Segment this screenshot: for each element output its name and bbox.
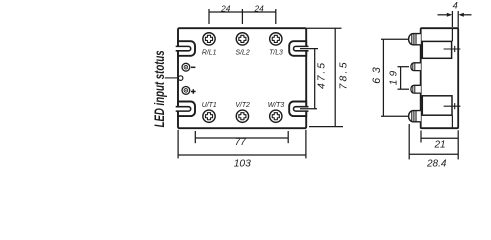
minus sign <box>191 66 195 68</box>
mounting tab bottom-left <box>176 102 195 117</box>
terminal screw V/T2 <box>236 110 248 122</box>
dimension 103 <box>178 130 306 159</box>
svg-text:78.5: 78.5 <box>338 62 349 89</box>
svg-text:U/T1: U/T1 <box>202 102 217 109</box>
dimension 63 <box>381 39 408 116</box>
input terminal minus screw <box>182 63 190 71</box>
svg-text:LED input stotus: LED input stotus <box>153 50 168 127</box>
svg-text:63: 63 <box>371 67 383 84</box>
side view mounting flange line (top segment) <box>451 28 453 41</box>
terminal screw S/L2 <box>236 33 248 45</box>
svg-text:4: 4 <box>453 0 458 10</box>
dimension 4 (flange thickness) <box>438 11 472 28</box>
side view input terminal lower <box>411 85 421 93</box>
dimension 77 <box>195 131 288 143</box>
svg-text:28.4: 28.4 <box>426 158 447 169</box>
side view mounting flange line (bottom segment) <box>451 115 453 128</box>
mounting tab top-right <box>289 41 308 56</box>
dimension 19 <box>398 67 410 90</box>
front view body outline <box>178 28 306 128</box>
svg-text:V/T2: V/T2 <box>235 102 250 109</box>
mounting tab top-left <box>176 41 195 56</box>
side view bottom mounting boss box <box>422 96 452 115</box>
dimension 78.5 <box>306 28 343 126</box>
svg-text:T/L3: T/L3 <box>269 50 283 57</box>
svg-text:R/L1: R/L1 <box>202 50 217 57</box>
svg-text:21: 21 <box>433 140 445 151</box>
dimension 24 lines and ticks <box>209 9 276 24</box>
side view top power terminal <box>409 34 421 45</box>
svg-text:77: 77 <box>235 137 247 148</box>
side view top slot line <box>444 46 461 52</box>
terminal screw W/T3 <box>270 110 282 122</box>
mounting tab bottom-right <box>289 102 308 117</box>
side view bottom power terminal <box>409 111 421 122</box>
svg-text:W/T3: W/T3 <box>268 102 285 109</box>
svg-text:103: 103 <box>234 159 251 170</box>
svg-text:47.5: 47.5 <box>317 63 328 89</box>
side view bottom slot line <box>444 103 461 109</box>
svg-text:24: 24 <box>220 3 231 13</box>
svg-text:19: 19 <box>389 70 400 85</box>
terminal screw T/L3 <box>270 33 282 45</box>
svg-text:24: 24 <box>253 3 264 13</box>
plus sign <box>191 89 196 94</box>
side view body outline <box>421 28 459 128</box>
terminal screw R/L1 <box>203 33 215 45</box>
side view input terminal upper <box>411 63 421 71</box>
side view top mounting boss box <box>422 41 451 58</box>
dimension 47.5 <box>300 49 318 109</box>
dimension 28.4 <box>409 124 458 159</box>
leader line from label to LED <box>165 77 179 79</box>
dimension 21 <box>421 130 458 159</box>
LED indicator circle <box>178 76 183 81</box>
terminal screw U/T1 <box>203 110 215 122</box>
input terminal plus screw <box>182 87 190 95</box>
svg-text:S/L2: S/L2 <box>236 50 250 57</box>
